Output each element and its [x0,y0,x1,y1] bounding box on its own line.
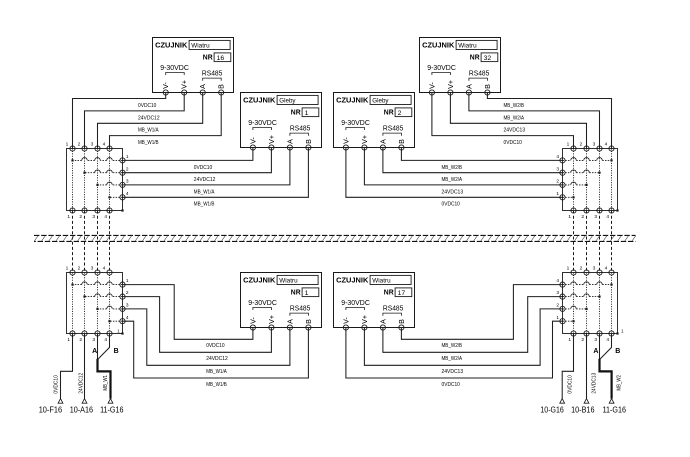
terminal 4 bottom [609,208,614,213]
svg-text:CZUJNIK: CZUJNIK [243,275,276,284]
sensor U5 CZUJNIK Wiatru NR 1 [241,273,322,331]
svg-text:10-F16: 10-F16 [39,404,63,414]
cable flag 10-G16 [560,399,565,404]
jumper row 1 to line 1 [73,159,123,161]
terminal 4 bottom [609,331,614,336]
terminal block X1 (upper left) [66,142,129,221]
svg-text:1: 1 [568,337,571,343]
svg-text:V+: V+ [268,135,276,144]
svg-text:A: A [199,84,207,89]
svg-text:V+: V+ [361,315,369,324]
svg-text:4: 4 [605,266,608,272]
terminal 4 top [609,270,614,275]
riser line 1 X1 to X3 [72,211,74,273]
svg-text:2: 2 [79,214,82,220]
terminal 2 top [82,146,87,151]
wire MB_W2/B: X4 side terminal 4 to U6 pin 4 [401,285,562,340]
svg-text:2: 2 [580,142,583,148]
svg-text:24VDC13: 24VDC13 [442,189,464,195]
cable flag 10-A16 [82,399,87,404]
svg-text:9-30VDC: 9-30VDC [160,65,189,72]
cable 0VDC10 to flag 10-G16 [562,334,573,399]
svg-text:1: 1 [556,315,559,321]
terminal 2 top [584,146,589,151]
terminal 2 bottom [82,208,87,213]
wire MB_W1/B: X3 side terminal 4 to U5 pin 4 [123,321,309,378]
svg-text:V+: V+ [181,80,189,89]
svg-text:4: 4 [606,337,609,343]
terminal 2 bottom [82,331,87,336]
svg-text:4: 4 [126,315,129,321]
riser line 2 X1 to X3 [84,211,86,273]
wire MB_W1/B: U1 pin 4 to X1 terminal 4 [110,93,222,149]
svg-text:MB_W1: MB_W1 [103,375,109,391]
jumper row 3 to line 3 [563,296,600,298]
svg-text:B: B [615,348,620,355]
svg-text:MB_W1/A: MB_W1/A [206,369,227,375]
svg-text:9-30VDC: 9-30VDC [248,120,277,127]
wire 24VDC13: U3 pin 2 to X2 side terminal 2 [364,148,562,185]
svg-text:A: A [379,139,387,144]
svg-text:A: A [286,319,294,324]
svg-text:2: 2 [580,266,583,272]
cable flag 10-B16 [584,399,589,404]
svg-text:NR: NR [470,53,481,62]
svg-text:Gleby: Gleby [372,98,389,105]
terminal 3 top [95,270,100,275]
riser line 4 X2 to X4 [611,211,613,273]
terminal 2 top [584,270,589,275]
terminal 3 top [597,146,602,151]
svg-text:CZUJNIK: CZUJNIK [243,95,276,104]
terminal block X4 (lower right) [556,266,624,344]
svg-text:MB_W2/B: MB_W2/B [504,103,525,109]
svg-text:4: 4 [104,337,107,343]
sensor U6 CZUJNIK Wiatru NR 17 [334,273,415,331]
terminal 3 bottom [95,208,100,213]
terminal 4 top [107,270,112,275]
side terminal 4 [560,158,565,163]
svg-text:0VDC10: 0VDC10 [504,140,522,146]
svg-text:9-30VDC: 9-30VDC [341,120,370,127]
side terminal 3 [120,182,125,187]
terminal 3 bottom [597,208,602,213]
cable 24VDC13 to flag 10-B16 [586,334,588,399]
svg-text:4: 4 [556,278,559,284]
svg-text:24VDC12: 24VDC12 [194,177,216,183]
cable MB_W1 (thick pair) to flag 11-G16 [98,359,111,399]
wire 24VDC13: X4 side terminal 2 to U6 pin 2 [364,309,562,365]
svg-text:1: 1 [305,290,309,297]
svg-text:2: 2 [556,179,559,185]
side terminal 4 [120,195,125,200]
svg-text:11-G16: 11-G16 [603,404,627,414]
svg-text:A: A [286,139,294,144]
svg-text:0VDC10: 0VDC10 [568,375,574,393]
svg-text:3: 3 [92,214,95,220]
svg-text:RS485: RS485 [469,71,490,78]
wire 0VDC10: X4 side terminal 1 to U6 pin 1 [346,321,563,378]
svg-text:32: 32 [484,55,492,62]
terminal 3 top [95,146,100,151]
svg-text:3: 3 [91,266,94,272]
svg-text:11-G16: 11-G16 [100,404,124,414]
side terminal 1 [120,282,125,287]
terminal 2 bottom [584,208,589,213]
terminal 1 top [571,146,576,151]
svg-text:3: 3 [126,303,129,309]
svg-text:4: 4 [556,154,559,160]
svg-text:2: 2 [556,303,559,309]
svg-text:V-: V- [249,137,257,144]
svg-text:RS485: RS485 [383,306,404,313]
jumper row 4 to line 4 [110,320,123,322]
riser line 3 X1 to X3 [97,211,99,273]
terminal 1 bottom [70,208,75,213]
sensor U3 CZUJNIK Gleby NR 2 [334,93,415,151]
wire MB_W2/B: U4 pin 4 to X2 terminal 4 [487,93,611,149]
svg-text:9-30VDC: 9-30VDC [248,300,277,307]
jumper row 1 to line 1 [563,196,574,198]
svg-text:10-G16: 10-G16 [540,404,564,414]
cable duct crossing (hatched band) [34,235,636,241]
svg-text:4: 4 [104,214,107,220]
svg-text:17: 17 [398,290,406,297]
riser line 4 X1 to X3 [109,211,111,273]
wire B stub from X3 terminal 4 [98,334,110,360]
svg-text:1: 1 [66,142,69,148]
svg-text:4: 4 [606,214,609,220]
svg-text:3: 3 [126,179,129,185]
svg-text:CZUJNIK: CZUJNIK [336,95,369,104]
svg-text:24VDC12: 24VDC12 [138,115,160,121]
wire MB_W1/A: U1 pin 3 to X1 terminal 3 [98,93,203,149]
svg-text:3: 3 [593,266,596,272]
wire 0VDC10: U3 pin 1 to X2 side terminal 1 [346,148,563,198]
svg-text:0VDC10: 0VDC10 [442,202,460,208]
svg-text:B: B [305,319,313,324]
wire 0VDC10: U1 pin 1 to X1 terminal 1 [73,93,166,149]
wire MB_W1/A: U2 pin 3 to X1 side terminal 3 [123,148,290,185]
jumper row 2 to line 2 [85,296,123,298]
svg-text:16: 16 [217,55,225,62]
svg-text:0VDC10: 0VDC10 [442,382,460,388]
svg-text:1: 1 [126,154,129,160]
svg-text:V-: V- [162,82,170,89]
terminal 1 bottom [70,331,75,336]
svg-text:CZUJNIK: CZUJNIK [155,40,188,49]
side terminal 3 [560,170,565,175]
svg-text:A: A [593,348,598,355]
svg-text:NR: NR [384,108,395,117]
svg-text:1: 1 [67,337,70,343]
svg-text:MB_W1/B: MB_W1/B [138,140,159,146]
wire MB_W2/A: X4 side terminal 3 to U6 pin 3 [383,297,563,353]
jumper row 1 to line 1 [563,320,574,322]
svg-text:Wiatru: Wiatru [279,278,298,285]
side terminal 4 [560,282,565,287]
jumper row 4 to line 4 [110,196,123,198]
svg-text:3: 3 [92,337,95,343]
jumper row 4 to line 4 [563,284,612,286]
svg-text:1: 1 [567,266,570,272]
svg-text:0VDC10: 0VDC10 [138,103,156,109]
svg-text:24VDC13: 24VDC13 [592,373,598,394]
svg-text:B: B [398,319,406,324]
svg-text:24VDC12: 24VDC12 [206,356,228,362]
svg-text:NR: NR [291,108,302,117]
sensor U2 CZUJNIK Gleby NR 1 [241,93,322,151]
terminal 2 bottom [584,331,589,336]
wire MB_W2/A: U4 pin 3 to X2 terminal 3 [469,93,600,149]
svg-text:3: 3 [594,337,597,343]
terminal 4 bottom [107,208,112,213]
jumper row 3 to line 3 [98,184,123,186]
svg-text:MB_W1/A: MB_W1/A [138,128,159,134]
wire 24VDC12: U2 pin 2 to X1 side terminal 2 [123,148,272,173]
terminal block X3 (lower left) [66,266,129,344]
sensor U4 CZUJNIK Wiatru NR 32 [420,38,501,96]
svg-text:3: 3 [593,142,596,148]
terminal 3 bottom [95,331,100,336]
svg-text:A: A [379,319,387,324]
svg-text:2: 2 [126,166,129,172]
svg-text:MB_W2/A: MB_W2/A [442,177,463,183]
svg-text:V+: V+ [268,315,276,324]
terminal block X2 (upper right) [556,142,618,221]
svg-text:10-A16: 10-A16 [70,404,94,414]
svg-text:MB_W2/B: MB_W2/B [442,165,463,171]
cable flag 11-G16 [108,399,113,404]
svg-text:A: A [465,84,473,89]
side terminal 4 [120,319,125,324]
svg-text:MB_W2/A: MB_W2/A [442,356,463,362]
svg-text:B: B [114,348,119,355]
svg-text:3: 3 [556,166,559,172]
svg-text:4: 4 [126,191,129,197]
wire 24VDC12: U1 pin 2 to X1 terminal 2 [85,93,185,149]
riser line 1 X2 to X4 [573,211,575,273]
svg-text:1: 1 [67,214,70,220]
svg-text:3: 3 [594,214,597,220]
svg-text:A: A [92,348,97,355]
wire B stub from X4 terminal 4 [600,334,612,360]
svg-text:V+: V+ [447,80,455,89]
svg-text:B: B [484,84,492,89]
svg-text:0VDC10: 0VDC10 [206,343,224,349]
svg-text:CZUJNIK: CZUJNIK [336,275,369,284]
svg-text:MB_W1/A: MB_W1/A [194,189,215,195]
svg-text:V-: V- [249,317,257,324]
svg-text:2: 2 [78,142,81,148]
svg-text:RS485: RS485 [290,126,311,133]
svg-text:MB_W2/B: MB_W2/B [442,343,463,349]
cable flag 10-F16 [58,399,63,404]
svg-text:0VDC10: 0VDC10 [53,375,59,393]
svg-text:V+: V+ [361,135,369,144]
svg-text:B: B [218,84,226,89]
cable MB_W2 (thick pair) to flag 11-G16 [600,359,612,399]
svg-text:1: 1 [66,266,69,272]
cable 24VDC12 to flag 10-A16 [84,334,86,399]
side terminal 2 [560,306,565,311]
terminal 2 top [82,270,87,275]
wire MB_W1/A: X3 side terminal 3 to U5 pin 3 [123,309,290,365]
riser line 3 X2 to X4 [599,211,601,273]
terminal 3 top [597,270,602,275]
svg-text:B: B [305,139,313,144]
terminal 1 top [571,270,576,275]
wire 0VDC10: U4 pin 1 to X2 terminal 1 [432,93,574,149]
svg-text:RS485: RS485 [383,126,404,133]
terminal 4 top [609,146,614,151]
svg-text:3: 3 [91,142,94,148]
terminal 1 top [70,146,75,151]
svg-text:9-30VDC: 9-30VDC [427,65,456,72]
side terminal 1 [120,158,125,163]
svg-text:1: 1 [126,278,129,284]
wire MB_W2/A: U3 pin 3 to X2 side terminal 3 [383,148,563,173]
svg-text:B: B [398,139,406,144]
wire 24VDC12: X3 side terminal 2 to U5 pin 2 [123,297,272,353]
svg-text:2: 2 [78,266,81,272]
svg-text:9-30VDC: 9-30VDC [341,300,370,307]
wire A stub from X4 terminal 3 [599,334,601,360]
svg-text:24VDC12: 24VDC12 [79,373,85,394]
side terminal 1 [560,319,565,324]
svg-text:RS485: RS485 [202,71,223,78]
side terminal 2 [120,294,125,299]
side terminal 3 [120,306,125,311]
svg-text:V-: V- [342,317,350,324]
terminal 4 top [107,146,112,151]
svg-text:0VDC10: 0VDC10 [194,165,212,171]
svg-text:1: 1 [305,110,309,117]
cable flag 11-G16 [609,399,614,404]
svg-text:4: 4 [103,142,106,148]
wire A stub from X3 terminal 3 [97,334,99,360]
svg-text:2: 2 [79,337,82,343]
wire 0VDC10: U2 pin 1 to X1 side terminal 1 [123,148,253,161]
svg-text:4: 4 [103,266,106,272]
wire 24VDC13: U4 pin 2 to X2 terminal 2 [450,93,586,149]
svg-text:10-B16: 10-B16 [571,404,595,414]
jumper row 2 to line 2 [563,184,587,186]
svg-text:2: 2 [126,290,129,296]
terminal 1 bottom [571,331,576,336]
jumper row 3 to line 3 [98,308,123,310]
jumper row 4 to line 4 [563,159,612,161]
svg-text:Wiatru: Wiatru [191,43,210,50]
cable 0VDC10 to flag 10-F16 [61,334,73,399]
wire MB_W1/B: U2 pin 4 to X1 side terminal 4 [123,148,309,198]
svg-text:1: 1 [556,191,559,197]
jumper row 1 to line 1 [73,284,123,286]
side terminal 1 [560,195,565,200]
side terminal 2 [560,182,565,187]
svg-text:2: 2 [581,337,584,343]
svg-text:24VDC13: 24VDC13 [442,369,464,375]
terminal 1 bottom [571,208,576,213]
riser line 2 X2 to X4 [586,211,588,273]
terminal 4 bottom [107,331,112,336]
wire 0VDC10: X3 side terminal 1 to U5 pin 1 [123,285,253,340]
svg-text:2: 2 [581,214,584,220]
svg-text:1: 1 [567,142,570,148]
svg-text:Wiatru: Wiatru [458,43,477,50]
svg-text:V-: V- [342,137,350,144]
jumper row 2 to line 2 [563,308,587,310]
jumper row 2 to line 2 [85,172,123,174]
side terminal 2 [120,170,125,175]
svg-text:MB_W1/B: MB_W1/B [206,382,227,388]
sensor U1 CZUJNIK Wiatru NR 16 [153,38,234,96]
svg-text:V-: V- [428,82,436,89]
svg-text:NR: NR [384,288,395,297]
svg-text:NR: NR [203,53,214,62]
svg-text:MB_W1/B: MB_W1/B [194,202,215,208]
terminal 3 bottom [597,331,602,336]
svg-text:24VDC13: 24VDC13 [504,128,526,134]
svg-text:NR: NR [291,288,302,297]
svg-text:MB_W2: MB_W2 [617,375,623,391]
svg-text:Wiatru: Wiatru [372,278,391,285]
wire MB_W2/B: U3 pin 4 to X2 side terminal 4 [401,148,562,161]
svg-text:2: 2 [398,110,402,117]
svg-text:RS485: RS485 [290,306,311,313]
svg-text:CZUJNIK: CZUJNIK [422,40,455,49]
svg-text:MB_W2/A: MB_W2/A [504,115,525,121]
terminal 1 top [70,270,75,275]
svg-text:1: 1 [568,214,571,220]
svg-text:3: 3 [556,290,559,296]
svg-text:Gleby: Gleby [279,98,296,105]
svg-text:4: 4 [605,142,608,148]
side terminal 3 [560,294,565,299]
jumper row 3 to line 3 [563,172,600,174]
